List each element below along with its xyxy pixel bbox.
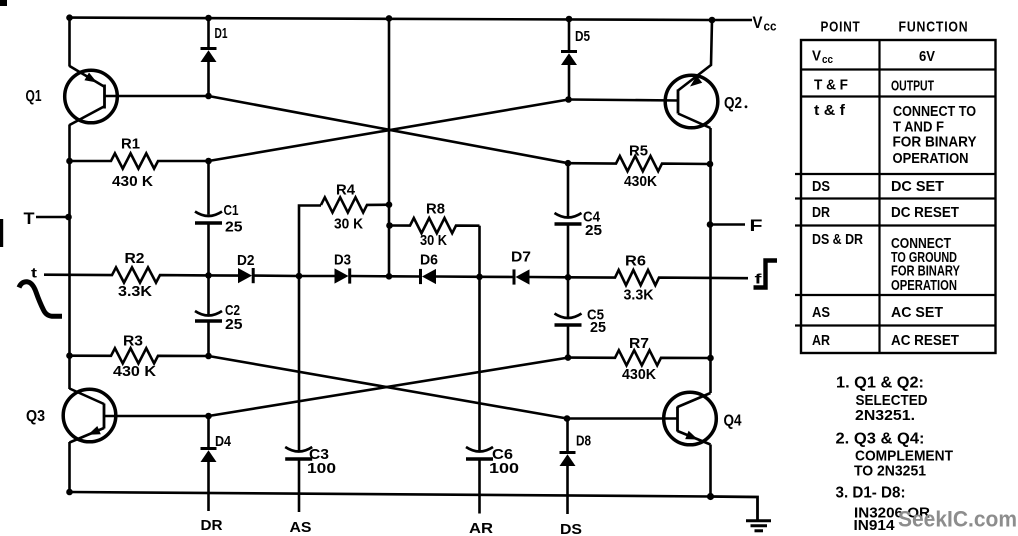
svg-text:FUNCTION: FUNCTION (899, 19, 969, 36)
wire diagonal R3 to Q4-base (209, 356, 568, 419)
svg-text:Q2: Q2 (724, 95, 742, 112)
svg-text:R2: R2 (125, 250, 145, 267)
svg-text:DS: DS (812, 178, 830, 195)
svg-text:C1: C1 (224, 202, 239, 219)
diode D5 (568, 19, 571, 52)
resistor R1 (70, 153, 209, 168)
diode D8 (566, 419, 569, 453)
diode D7 (513, 269, 516, 284)
svg-text:FOR BINARY: FOR BINARY (893, 135, 977, 151)
wire D3 anode lead (299, 275, 335, 278)
wire C6 bottom lead / AR stub (478, 459, 481, 514)
node R3 left (66, 352, 73, 359)
transistor Q4 circle (664, 392, 717, 445)
resistor R3 (70, 348, 209, 363)
svg-text:AS: AS (812, 304, 830, 321)
svg-text:D6: D6 (420, 252, 438, 269)
node R1 left (66, 158, 73, 165)
svg-text:R4: R4 (336, 182, 356, 199)
transistor Q2 base bar (677, 90, 680, 114)
svg-text:V: V (812, 48, 821, 65)
svg-text:D3: D3 (334, 252, 351, 269)
table outer border (801, 40, 996, 353)
table row divider 5 (795, 224, 996, 226)
wire Q4 emitter to rail (709, 445, 712, 497)
svg-text:AS: AS (290, 519, 312, 536)
wire D7 cathode lead (480, 275, 515, 278)
transistor Q2 emitter (678, 20, 712, 91)
svg-text:Q3: Q3 (26, 408, 45, 425)
svg-text:R6: R6 (625, 253, 646, 270)
svg-text:430 K: 430 K (113, 363, 156, 380)
resistor R2 (44, 267, 209, 282)
node Vcc / Q2 emitter (709, 17, 716, 24)
wire diagonal Q3-base to R7 (209, 358, 569, 416)
svg-text:D1: D1 (215, 25, 228, 42)
transistor Q3 base bar (103, 404, 106, 429)
resistor R4 (299, 206, 321, 277)
svg-text:R7: R7 (629, 335, 649, 352)
wire D6 anode lead (436, 275, 480, 278)
wire C4 bottom lead (567, 224, 570, 277)
svg-text:DS: DS (560, 521, 582, 536)
node R7 left (565, 354, 572, 361)
node center line at center vertical (386, 273, 393, 280)
node R1 right (205, 158, 212, 165)
wire C2 bottom lead (207, 321, 210, 356)
node center vertical top (386, 15, 393, 22)
scan artifact left edge (0, 219, 3, 247)
svg-text:25: 25 (225, 219, 243, 236)
svg-text:430 K: 430 K (112, 173, 153, 190)
wire top Vcc rail (70, 18, 713, 20)
node D5 top (566, 16, 573, 23)
resistor R7 (568, 350, 711, 365)
resistor R8 (390, 218, 480, 233)
svg-text:3. D1- D8:: 3. D1- D8: (836, 485, 906, 502)
wire C5 top lead (567, 277, 570, 317)
svg-text:100: 100 (489, 460, 519, 477)
node F (707, 221, 714, 228)
capacitor C6 (466, 447, 493, 452)
svg-text:R1: R1 (121, 136, 140, 153)
wire f stub (711, 277, 748, 280)
diode D3 (335, 268, 349, 283)
node Q2 base / D5 bottom (565, 96, 572, 103)
svg-text:OUTPUT: OUTPUT (891, 78, 934, 95)
diode D2 (238, 268, 252, 283)
svg-text:Q1: Q1 (26, 88, 42, 105)
node T (65, 214, 72, 221)
node bottom-left corner (66, 489, 73, 496)
svg-text:DR: DR (812, 204, 830, 221)
svg-text:D8: D8 (576, 433, 591, 450)
waveform falling edge at t (19, 282, 62, 317)
svg-text:6V: 6V (919, 48, 935, 65)
wire C1 bottom lead (207, 223, 210, 275)
transistor Q1 collector (70, 107, 105, 126)
wire Q1 base lead (105, 95, 209, 98)
svg-text:cc: cc (822, 54, 833, 66)
node Q3 base / D4 top (205, 413, 212, 420)
wire left vertical upper (Q1 emitter feed) (68, 18, 71, 67)
table row divider 2 (800, 95, 996, 97)
wire D3 cathode lead (350, 275, 389, 278)
capacitor C3 (285, 447, 312, 452)
node center line at C4/C5 (565, 274, 572, 281)
svg-text:AC SET: AC SET (891, 304, 943, 321)
node center line at C6 riser (476, 274, 483, 281)
wire D6 cathode lead (389, 275, 421, 278)
capacitor C1 (195, 212, 222, 217)
wire Vcc stub (712, 19, 752, 21)
capacitor C5 (555, 314, 582, 319)
table row divider 7 (795, 324, 996, 326)
resistor R6 (568, 270, 711, 285)
svg-text:D7: D7 (511, 249, 531, 266)
svg-text:430K: 430K (624, 173, 657, 190)
svg-text:R5: R5 (629, 143, 648, 160)
svg-text:cc: cc (764, 19, 777, 34)
node Q4 base / D8 top (564, 415, 571, 422)
svg-text:D2: D2 (237, 252, 255, 269)
svg-text:AR: AR (469, 520, 493, 536)
svg-text:430K: 430K (622, 366, 656, 383)
svg-text:f: f (755, 271, 762, 287)
svg-text:OPERATION: OPERATION (891, 278, 957, 294)
svg-text:3.3K: 3.3K (624, 287, 654, 304)
svg-text:AR: AR (812, 332, 830, 349)
diode D6 (419, 269, 422, 284)
wire T stub (36, 216, 69, 219)
wire C6 top lead (478, 277, 481, 451)
node Q4 emitter at rail (707, 493, 714, 500)
svg-text:CONNECT TO: CONNECT TO (893, 104, 976, 120)
wire D7 anode lead (530, 276, 569, 279)
svg-text:DR: DR (201, 517, 223, 534)
transistor Q4 collector (678, 393, 711, 407)
transistor Q3 emitter (70, 428, 105, 443)
svg-text:25: 25 (590, 319, 606, 336)
wire C4 top lead (567, 163, 570, 216)
node D1 top (205, 15, 212, 22)
wire D2 cathode lead (254, 274, 300, 277)
svg-text:POINT: POINT (821, 19, 861, 36)
wire Q3 emitter to bottom rail (68, 442, 71, 492)
svg-text:T & F: T & F (814, 77, 848, 94)
wire C3 bottom lead / AS stub (298, 459, 301, 512)
diode D4 (207, 416, 210, 449)
svg-text:R8: R8 (426, 201, 445, 218)
svg-text:2N3251.: 2N3251. (855, 407, 915, 424)
transistor Q4 emitter (678, 431, 711, 445)
capacitor C4 (555, 213, 582, 218)
svg-text:R3: R3 (123, 333, 143, 350)
svg-text:t & f: t & f (814, 102, 846, 119)
scan artifact top-left corner (0, 0, 7, 6)
svg-text:1. Q1 & Q2:: 1. Q1 & Q2: (836, 375, 924, 392)
transistor Q2 circle (665, 75, 718, 128)
svg-text:25: 25 (585, 222, 602, 239)
wire D2 anode lead (209, 274, 239, 277)
svg-text:SeekIC.com: SeekIC.com (898, 507, 1017, 532)
wire ground stub (711, 497, 758, 521)
node center line at C1/C2 (205, 272, 212, 279)
transistor Q3 circle (63, 389, 116, 442)
table row divider 3 (795, 173, 996, 175)
table row divider 1 (800, 68, 996, 70)
svg-text:30 K: 30 K (420, 232, 447, 249)
svg-text:D5: D5 (575, 28, 590, 45)
wire diagonal Q1-base to R5 (209, 96, 569, 163)
node R3 right (205, 353, 212, 360)
transistor Q1 emitter (70, 66, 105, 87)
svg-text:T AND F: T AND F (893, 120, 944, 136)
svg-text:100: 100 (307, 460, 336, 477)
svg-text:T: T (24, 209, 36, 228)
node center line at C3 riser (296, 273, 303, 280)
transistor Q2 collector (678, 114, 711, 129)
svg-text:AC RESET: AC RESET (891, 332, 959, 349)
svg-text:DC SET: DC SET (891, 178, 944, 195)
svg-text:DC RESET: DC RESET (891, 204, 959, 221)
wire Q4 base lead (567, 417, 678, 420)
node R5 left (565, 160, 572, 167)
svg-text:3.3K: 3.3K (118, 283, 152, 300)
waveform rising edge at f (754, 261, 778, 288)
svg-text:IN914: IN914 (854, 517, 896, 534)
transistor Q1 base bar (103, 85, 106, 109)
wire Q3 base lead (104, 415, 209, 418)
svg-text:2. Q3 & Q4:: 2. Q3 & Q4: (836, 431, 925, 448)
resistor R5 (568, 156, 710, 171)
svg-text:Q4: Q4 (724, 413, 742, 430)
wire C1 top lead (207, 161, 210, 215)
wire bottom ground rail (70, 492, 711, 497)
transistor Q3 collector (70, 389, 105, 405)
transistor Q4 base bar (676, 407, 679, 432)
node R5 right (707, 161, 714, 168)
wire left vertical (T output line) (68, 125, 71, 390)
svg-text:V: V (753, 13, 764, 32)
table row divider 4 (795, 197, 996, 199)
transistor Q1 circle (65, 70, 118, 123)
svg-text:D4: D4 (215, 433, 232, 450)
svg-text:OPERATION: OPERATION (893, 151, 969, 167)
svg-text:30 K: 30 K (334, 216, 363, 233)
svg-text:t: t (31, 265, 37, 281)
svg-text:TO 2N3251: TO 2N3251 (854, 463, 926, 480)
node R4 right (386, 201, 393, 208)
wire C3 top lead (298, 276, 301, 451)
wire C2 top lead (207, 275, 210, 314)
wire diagonal R1 to Q2-base (209, 100, 569, 162)
node R8 left (386, 222, 393, 229)
node R7 right (707, 355, 714, 362)
wire right vertical (F output line) (709, 128, 712, 393)
svg-text:F: F (750, 216, 763, 235)
wire C5 bottom lead (567, 325, 570, 358)
table row divider 6 (795, 294, 996, 296)
table column divider (878, 40, 880, 353)
diode D1 (207, 18, 210, 49)
wire center vertical (388, 18, 391, 276)
capacitor C2 (195, 311, 222, 316)
node top-left corner (66, 14, 73, 21)
wire Q2 base lead (569, 100, 679, 101)
svg-text:DS & DR: DS & DR (812, 231, 863, 248)
svg-text:25: 25 (225, 316, 243, 333)
node Q1 base / D1 bottom (205, 93, 212, 100)
wire F stub (710, 223, 745, 226)
ground symbol (746, 519, 771, 522)
